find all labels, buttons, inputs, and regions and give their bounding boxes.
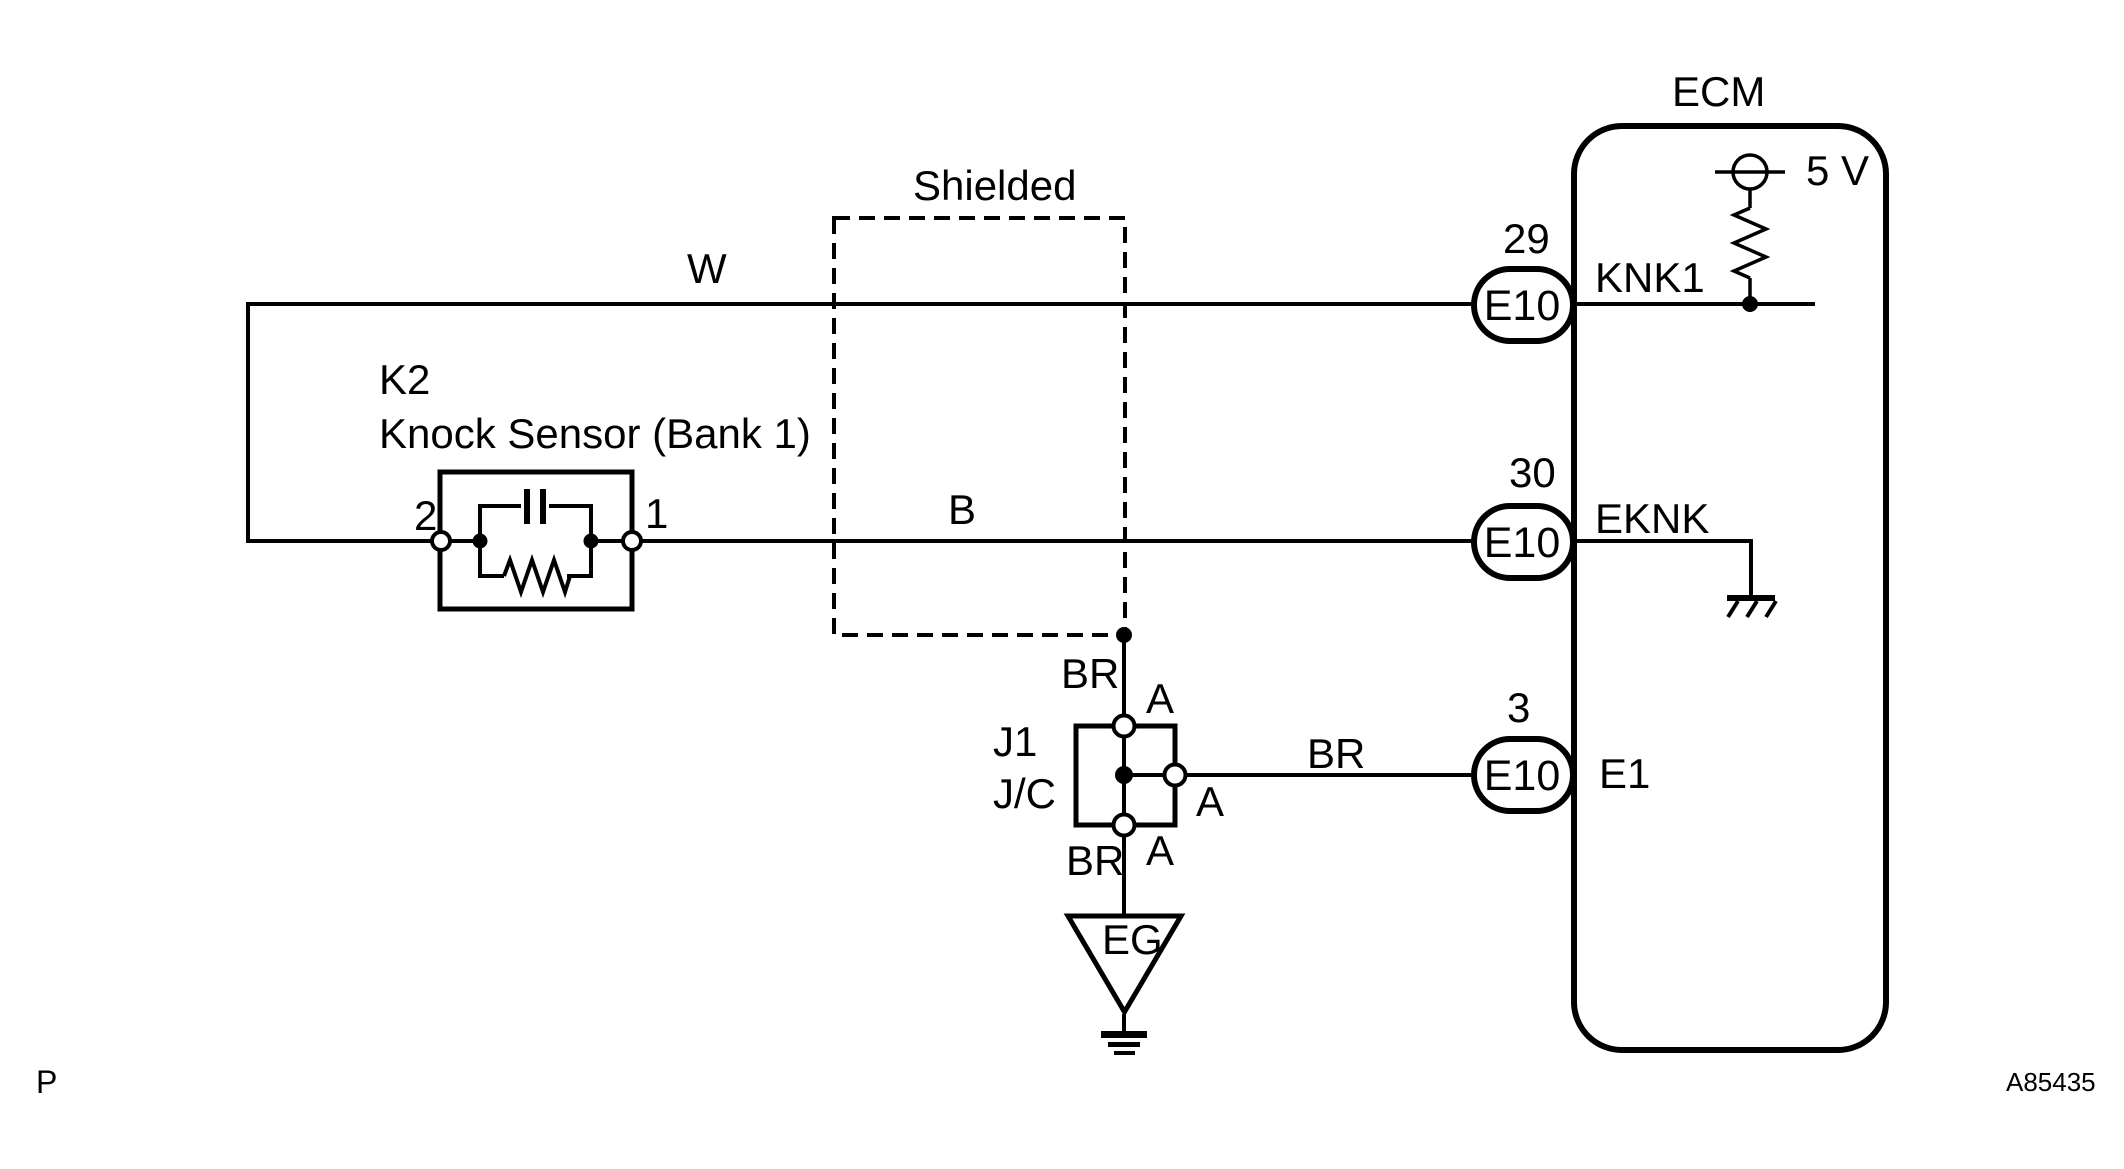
svg-text:29: 29 [1503, 215, 1550, 262]
svg-text:B: B [948, 486, 976, 533]
svg-text:A85435: A85435 [2006, 1067, 2096, 1097]
J1 middle junction dot [1115, 766, 1133, 784]
node dot right [584, 534, 599, 549]
svg-text:J/C: J/C [993, 770, 1056, 817]
svg-text:30: 30 [1509, 449, 1556, 496]
svg-text:1: 1 [645, 490, 668, 537]
junction connector J1 box [1076, 726, 1175, 825]
wire triangle apex to ground [1122, 1014, 1126, 1033]
svg-text:A: A [1196, 778, 1224, 825]
svg-text:EG: EG [1102, 916, 1163, 963]
svg-text:Shielded: Shielded [913, 162, 1076, 209]
svg-text:E10: E10 [1484, 282, 1561, 330]
node dot left [473, 534, 488, 549]
shield dashed box [834, 218, 1125, 635]
svg-text:A: A [1146, 827, 1174, 874]
5V supply circle [1733, 155, 1767, 189]
shield drain junction dot [1116, 627, 1132, 643]
svg-text:K2: K2 [379, 356, 430, 403]
svg-text:E1: E1 [1599, 750, 1650, 797]
ground EG bars [1101, 1031, 1147, 1038]
svg-text:J1: J1 [993, 718, 1037, 765]
resistor zigzag [504, 560, 570, 592]
knock sensor K2 box [440, 472, 632, 609]
svg-text:A: A [1146, 675, 1174, 722]
connector E10 pin 29 oval [1474, 269, 1573, 341]
ECM box [1574, 126, 1886, 1050]
connector E10 pin 30 oval [1474, 506, 1573, 578]
chassis ground slashes [1728, 601, 1738, 617]
wire resistor to KNK1 [1748, 278, 1752, 304]
svg-text:3: 3 [1507, 684, 1530, 731]
wire EKNK inside ECM [1575, 541, 1751, 597]
junction dot KNK1 [1742, 296, 1758, 312]
ground EG triangle [1068, 916, 1181, 1012]
svg-text:2: 2 [414, 492, 437, 539]
wire W (top horizontal from left riser to ECM pin 29) [248, 302, 1474, 306]
svg-text:P: P [36, 1064, 57, 1100]
svg-text:5 V: 5 V [1806, 147, 1869, 194]
svg-text:E10: E10 [1484, 752, 1561, 800]
svg-text:BR: BR [1307, 730, 1365, 777]
svg-text:Knock Sensor (Bank 1): Knock Sensor (Bank 1) [379, 410, 811, 457]
J1 top pin circle A [1114, 716, 1135, 737]
wire inside sensor (node to pin1) [591, 539, 632, 543]
wire inside sensor (pin2 to node) [441, 539, 480, 543]
svg-text:BR: BR [1066, 837, 1124, 884]
wire B left (left riser to sensor pin 2) [246, 539, 441, 543]
branch verticals inside sensor [478, 506, 482, 576]
svg-text:EKNK: EKNK [1595, 495, 1709, 542]
resistor bottom leads [478, 574, 504, 578]
svg-text:BR: BR [1061, 650, 1119, 697]
svg-text:KNK1: KNK1 [1595, 254, 1705, 301]
wire KNK1 inside ECM [1575, 302, 1815, 306]
svg-text:E10: E10 [1484, 519, 1561, 567]
svg-text:W: W [687, 245, 727, 292]
capacitor plates [524, 489, 530, 524]
pin 2 circle [432, 532, 450, 550]
svg-text:ECM: ECM [1672, 68, 1765, 115]
J1 bottom pin circle A [1114, 815, 1135, 836]
wire 5V to resistor [1748, 189, 1752, 208]
chassis ground bar [1727, 595, 1775, 601]
J1 right pin circle A [1165, 765, 1186, 786]
capacitor top leads [478, 504, 521, 508]
wire BR (shield drain down to EG triangle) [1122, 635, 1126, 914]
5V supply crossbar [1715, 170, 1785, 174]
wire B (sensor pin 1 to ECM pin 30) [632, 539, 1474, 543]
pin 1 circle [623, 532, 641, 550]
wire left riser (vertical from W down to B) [246, 302, 250, 541]
connector E10 pin 3 oval [1474, 739, 1573, 811]
resistor pull-up zigzag [1734, 208, 1766, 278]
wire BR (J1 to ECM pin 3) [1124, 773, 1474, 777]
